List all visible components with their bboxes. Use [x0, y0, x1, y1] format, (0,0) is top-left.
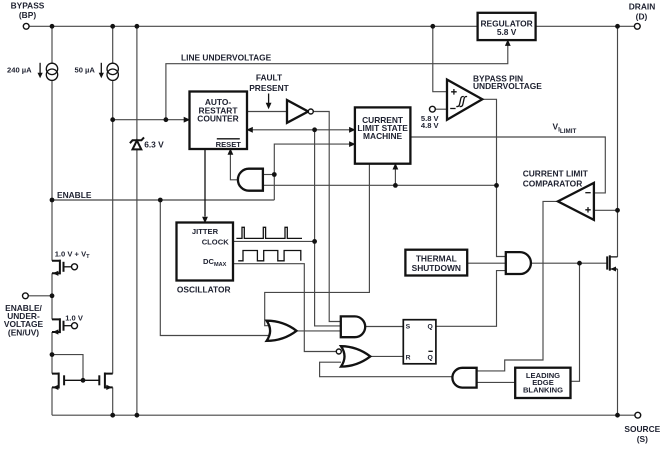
arrow into state machine bottom (bypass uv)	[393, 163, 399, 170]
wire left rail: T1 to T2	[51, 273, 53, 319]
svg-text:4.8 V: 4.8 V	[421, 121, 440, 130]
wire restart bus (clock to both boxes)	[252, 130, 350, 326]
terminal DRAIN (D)	[634, 23, 640, 29]
clock waveform glyph	[236, 227, 302, 238]
zener diode 6.3 V	[130, 137, 144, 143]
wire OR output to S-AND	[297, 330, 341, 332]
OR gate R-driver with inverted input	[341, 346, 370, 366]
svg-text:1.0 V: 1.0 V	[65, 313, 84, 322]
svg-text:FAULT: FAULT	[256, 72, 283, 82]
wire NOR output to latch R	[365, 355, 403, 357]
wire MOSFET source down to source rail	[617, 269, 619, 415]
auto-restart counter box	[190, 92, 248, 150]
wire bypass comparator output bus	[263, 99, 506, 256]
svg-text:COUNTER: COUNTER	[197, 114, 238, 124]
wire ENABLE horizontal	[52, 199, 274, 201]
thermal shutdown box	[405, 250, 467, 276]
svg-text:Q: Q	[428, 324, 433, 331]
transistor Q3 (mirror left)	[52, 373, 59, 389]
svg-text:SOURCE: SOURCE	[624, 424, 660, 434]
svg-text:JITTER: JITTER	[192, 227, 219, 236]
arrow FAULT PRESENT pointing down	[268, 94, 270, 104]
regulator 5.8V box	[478, 13, 536, 40]
svg-text:Q: Q	[428, 355, 433, 362]
svg-text:RESET: RESET	[216, 140, 242, 149]
wire left rail: T2 to T3	[51, 332, 53, 374]
leading edge blanking box	[515, 368, 570, 398]
svg-text:PRESENT: PRESENT	[249, 83, 289, 93]
wire comparator plus input	[594, 209, 618, 211]
svg-text:(D): (D)	[636, 11, 648, 21]
wire state machine down leg to OR	[265, 164, 370, 326]
bypass pin undervoltage comparator	[447, 80, 482, 120]
transistor Q2 (1.0 V)	[52, 318, 60, 333]
current limit comparator (left-facing)	[558, 183, 594, 220]
OR gate enable (right-facing)	[267, 321, 297, 341]
svg-text:OSCILLATOR: OSCILLATOR	[177, 284, 231, 294]
svg-text:COMPARATOR: COMPARATOR	[523, 178, 583, 188]
wire zener rail upper	[136, 26, 138, 140]
AND gate current-limit/LEB (left-facing)	[452, 368, 476, 388]
svg-text:240 µA: 240 µA	[7, 66, 32, 75]
wire left rail: T3 to bottom rail	[51, 387, 53, 415]
wire zener rail lower	[136, 150, 138, 416]
svg-text:DRAIN: DRAIN	[629, 1, 656, 11]
current source IS2 50uA	[107, 63, 118, 74]
arrow into state machine upper left	[349, 127, 356, 133]
wire latch Q to thermal AND	[436, 271, 506, 327]
terminal 5.8V/4.8V threshold	[430, 106, 436, 112]
wire 240uA rail upper	[51, 26, 53, 63]
oscillator box	[177, 223, 234, 281]
transistor Q1 (1.0 V + VT)	[52, 260, 60, 275]
svg-text:6.3 V: 6.3 V	[144, 139, 164, 149]
terminal ENABLE/UNDERVOLTAGE (EN/UV)	[23, 293, 29, 299]
MOSFET output transistor	[606, 256, 608, 269]
svg-text:CURRENT LIMIT: CURRENT LIMIT	[523, 169, 589, 179]
arrow into auto-restart counter right (restart bus)	[246, 127, 253, 133]
wire bypass comp plus input	[433, 26, 447, 91]
svg-text:R: R	[406, 355, 411, 362]
svg-text:5.8 V: 5.8 V	[497, 27, 517, 37]
wire gate drive down to LEB	[571, 263, 580, 381]
svg-text:BLANKING: BLANKING	[523, 386, 563, 395]
terminal SOURCE (S)	[635, 412, 641, 418]
svg-text:50 µA: 50 µA	[75, 66, 96, 75]
wire DCMAX output to NOR bubble	[233, 264, 336, 352]
SR latch box	[403, 320, 436, 364]
wire LEB to AND bottom input	[477, 381, 516, 383]
arrow into regulator bottom (line undervoltage)	[505, 39, 511, 46]
wire bypass comp minus input	[435, 108, 447, 110]
svg-text:LINE UNDERVOLTAGE: LINE UNDERVOLTAGE	[181, 52, 272, 62]
svg-text:SHUTDOWN: SHUTDOWN	[412, 263, 461, 273]
wire EN/UV pin to rail	[28, 295, 52, 297]
wire T4 to bottom rail	[112, 387, 114, 415]
svg-text:THERMAL: THERMAL	[416, 254, 457, 264]
current source IS1 240uA	[46, 63, 57, 74]
wire line undervoltage	[166, 45, 508, 120]
wire LEB AND output feedback to NOR	[320, 362, 453, 377]
junction dots	[50, 24, 55, 29]
wire comparator output to LEB AND	[477, 201, 558, 371]
wire 50uA rail upper	[112, 26, 114, 63]
wire inverter output to S-AND	[313, 112, 341, 322]
inverter U3	[287, 100, 308, 123]
transistor Q4 (mirror right)	[105, 373, 113, 389]
wire clock output	[233, 240, 315, 242]
wire enable to state machine	[274, 144, 350, 200]
wire reset AND top input tap	[263, 174, 274, 176]
svg-text:ENABLE: ENABLE	[57, 190, 92, 200]
wire state machine to VILIMIT to comparator minus	[410, 137, 605, 193]
wire 50uA rail lower to T4	[112, 80, 114, 373]
AND gate thermal/gate-drive	[506, 252, 531, 274]
AND gate S-driver	[341, 316, 365, 337]
wire BP top rail	[29, 25, 634, 27]
current limit state machine box	[355, 107, 411, 163]
wire source bottom rail	[52, 414, 635, 416]
wire drain vertical (D to MOSFET drain)	[617, 26, 619, 257]
wire enable down leg to OR gate	[160, 200, 270, 336]
wire mirror gate tap	[52, 355, 83, 381]
terminal BYPASS (BP)	[23, 23, 29, 29]
wire reset AND output to RESET pin	[230, 154, 238, 180]
arrow into oscillator top	[204, 149, 206, 217]
wire 50uA tap to auto-restart input	[113, 119, 185, 121]
arrow into RESET (auto-restart bottom)	[228, 148, 234, 155]
svg-text:CLOCK: CLOCK	[202, 238, 230, 247]
svg-text:(EN/UV): (EN/UV)	[8, 328, 39, 338]
svg-text:(S): (S)	[637, 434, 648, 444]
svg-text:(BP): (BP)	[19, 10, 36, 20]
svg-text:S: S	[406, 324, 411, 331]
dcmax waveform glyph	[238, 251, 301, 261]
svg-text:UNDERVOLTAGE: UNDERVOLTAGE	[473, 81, 542, 91]
svg-text:MACHINE: MACHINE	[363, 131, 402, 141]
svg-text:BYPASS: BYPASS	[11, 1, 45, 11]
wire S-AND to latch S	[365, 326, 403, 328]
wire thermal shutdown to AND	[467, 262, 506, 264]
svg-text:1.0 V + VT: 1.0 V + VT	[55, 249, 90, 260]
wire auto-restart to inverter	[247, 111, 287, 113]
arrow into auto-restart counter left (from 50uA tap)	[184, 117, 191, 123]
wire left rail: source1 to T1	[51, 80, 53, 260]
AND gate auto-restart reset (left-facing)	[238, 169, 263, 191]
wire gate drive to MOSFET	[531, 262, 607, 264]
arrow into state machine lower left (enable)	[349, 141, 356, 147]
